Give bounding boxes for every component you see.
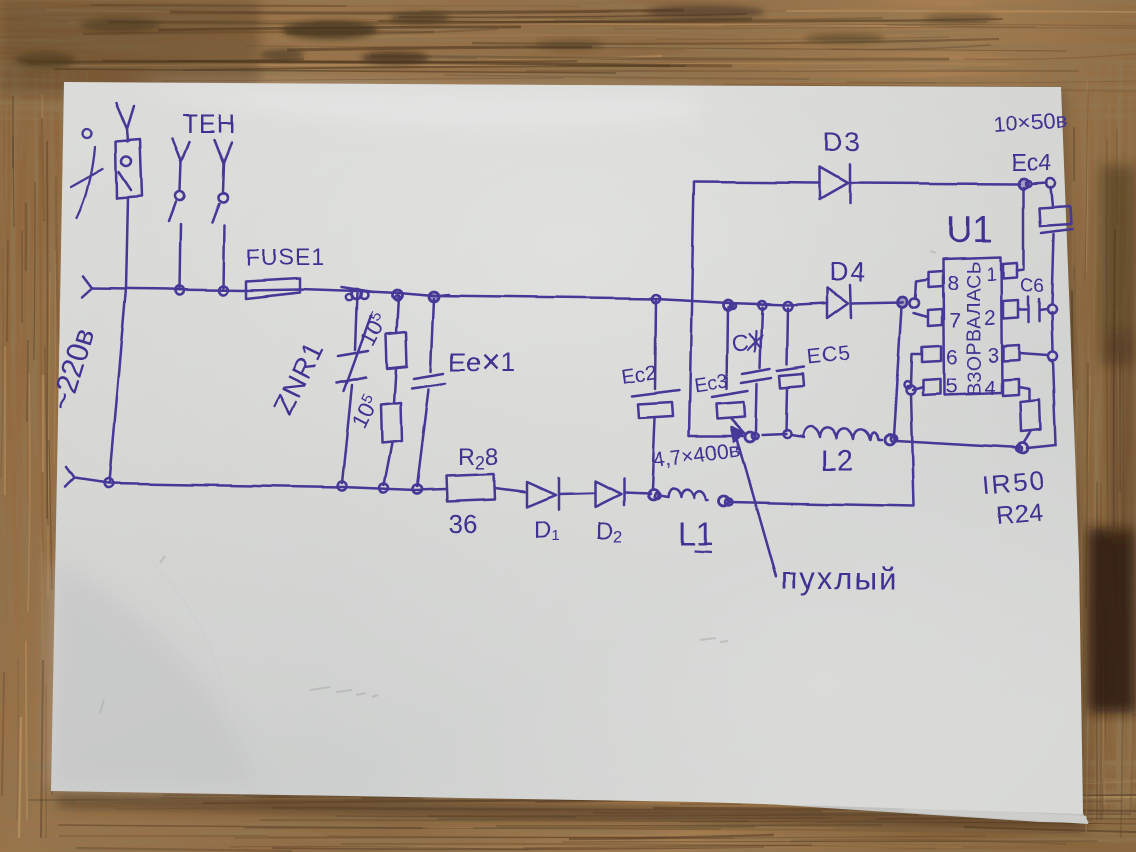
wire phase-rail left fork terminal — [82, 276, 92, 297]
wire R28 to D1 — [495, 488, 527, 492]
svg-text:10×50в: 10×50в — [993, 107, 1068, 137]
paper sheet — [51, 82, 1083, 814]
capacitor EC2 — [632, 295, 679, 490]
wire right vertical (EC4 to corner) — [1052, 312, 1056, 445]
diode D4 — [827, 285, 851, 318]
switch S1 (TEH contact 1) — [169, 139, 189, 288]
diode D3 — [820, 164, 850, 203]
diode D1 — [527, 478, 559, 510]
subtle paper shading bottom-left — [53, 86, 700, 786]
wire D4 node down to L2 node — [894, 307, 902, 437]
faint crease bottom left — [150, 560, 235, 790]
faint pencil smudges — [100, 251, 936, 713]
wire bottom return loop — [729, 394, 914, 506]
fuse FUSE1 body — [246, 278, 300, 298]
wire D3 top rail — [694, 182, 1020, 184]
junction EC2-neutral — [648, 490, 660, 500]
thermostat t° body — [116, 139, 142, 198]
svg-text:Ес4: Ес4 — [1011, 150, 1052, 177]
svg-text:ВЗОРВАЛАСЬ: ВЗОРВАЛАСЬ — [963, 260, 985, 395]
shadow under paper — [55, 90, 1090, 830]
wire pin1 stub and vertical to EC4 node — [1017, 188, 1024, 271]
label L1 — [678, 516, 714, 552]
capacitor EC5 — [777, 302, 804, 439]
wire phase rail after D4 — [851, 302, 903, 303]
wire pin5 stub — [913, 387, 923, 390]
junction pins 5-6 — [907, 386, 916, 395]
second sheet edge bottom right — [690, 799, 1089, 823]
resistor 10^5 pair (RC snubber) — [380, 290, 408, 493]
svg-text:ТЕН: ТЕН — [182, 109, 237, 139]
U1 pin 4 box — [1003, 379, 1019, 396]
varistor ZNR1 — [337, 287, 373, 491]
wire D2 to L1 — [624, 493, 650, 494]
wire pin3 stub — [1019, 353, 1048, 355]
dark knots on the wood, top — [15, 5, 996, 68]
U1 pin 7 box — [928, 309, 942, 326]
U1 pin 3 box — [1003, 345, 1019, 361]
IC U1 body — [943, 257, 1002, 395]
inductor L2 — [803, 427, 882, 441]
wire phase rail — [92, 288, 827, 305]
resistor R28 body — [446, 474, 495, 501]
switch S2 (TEH contact 2) — [212, 140, 232, 288]
thermostat t° terminal fork — [116, 103, 134, 141]
wire neutral rail to R28 — [74, 478, 446, 490]
wire L2 node to right corner — [896, 441, 1056, 448]
wire neutral-rail left fork terminal — [65, 467, 74, 487]
svg-text:7: 7 — [949, 309, 961, 332]
junction neutral-thermostat — [104, 479, 113, 488]
junction resistor-bottom — [1018, 443, 1028, 453]
svg-text:36: 36 — [448, 509, 478, 539]
pointer arrow to EC3 (пухлый) — [731, 427, 776, 577]
svg-text:1: 1 — [986, 265, 997, 286]
label t° — [71, 130, 103, 219]
svg-text:пухлый: пухлый — [781, 561, 898, 596]
inductor L1 — [662, 489, 708, 500]
svg-text:С6: С6 — [1020, 276, 1044, 297]
U1 pin 5 box — [923, 379, 940, 395]
wire mid rail to L2 — [689, 434, 804, 437]
wire D1 to D2 — [559, 493, 595, 494]
junction L1 right — [719, 496, 733, 506]
capacitor C6 — [1018, 297, 1057, 322]
capacitor EC4 — [1040, 187, 1072, 304]
capacitor C* — [742, 301, 771, 431]
capacitor EC3 — [712, 300, 748, 433]
svg-text:Ее×1: Ее×1 — [449, 343, 515, 380]
svg-text:4: 4 — [984, 377, 996, 400]
svg-text:8: 8 — [947, 272, 959, 295]
wire pin6 stub — [911, 354, 922, 386]
junction D3 rail / EC4 — [1019, 179, 1056, 190]
svg-text:U1: U1 — [946, 209, 993, 250]
svg-text:L1: L1 — [678, 516, 714, 552]
svg-text:L2: L2 — [821, 445, 853, 477]
wire D3 branch vertical — [689, 182, 694, 436]
svg-text:6: 6 — [946, 346, 958, 369]
U1 pin numbers — [945, 265, 999, 400]
junction S1-rail — [176, 286, 185, 295]
U1 pin 2 box — [1003, 301, 1018, 319]
svg-text:IR50: IR50 — [981, 465, 1046, 500]
wire pin8 stub — [916, 279, 929, 299]
wire pin7 stub — [914, 313, 928, 317]
junction L2 right — [885, 435, 897, 445]
U1 pin 1 box — [1003, 263, 1017, 279]
junction D4 output — [898, 297, 920, 308]
U1 pin 8 box — [929, 271, 943, 287]
junction EC3-mid rail — [745, 432, 758, 442]
junction pin3-right vertical — [1049, 352, 1058, 361]
svg-text:3: 3 — [987, 344, 999, 367]
U1 pin 6 box — [922, 346, 941, 362]
svg-text:5: 5 — [945, 375, 957, 398]
svg-text:D3: D3 — [823, 127, 862, 157]
wire pin4 hook — [1019, 387, 1030, 401]
junction S2-rail — [219, 286, 228, 295]
svg-text:FUSE1: FUSE1 — [246, 244, 325, 270]
diode D2 — [595, 479, 624, 507]
svg-text:2: 2 — [984, 307, 996, 330]
svg-text:R24: R24 — [995, 498, 1043, 530]
svg-text:ЕС5: ЕС5 — [806, 342, 852, 369]
resistor R (pin4) body — [1021, 400, 1041, 432]
capacitor X (Ee x1) — [412, 292, 449, 494]
dark shadow band right side — [1088, 165, 1136, 713]
svg-text:D4: D4 — [829, 257, 868, 287]
wire thermostat to neutral rail — [109, 198, 128, 482]
wire resistor to bottom rail — [1024, 432, 1031, 443]
